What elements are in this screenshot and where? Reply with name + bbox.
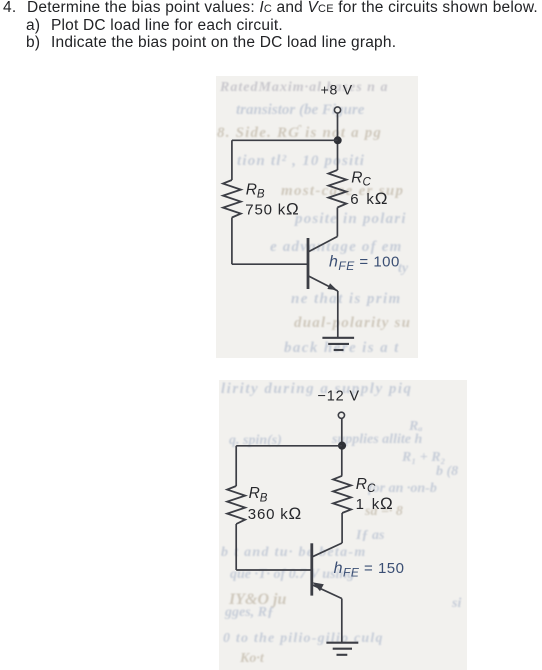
transistor Q2 base bar [310, 543, 313, 595]
svg-text:6 kΩ: 6 kΩ [350, 189, 387, 208]
node -12V supply terminal [338, 412, 344, 418]
wire left vertical upper circuit 1 [231, 140, 233, 180]
node junction dot circuit 1 [334, 136, 342, 144]
wire supply to junction circuit 1 [337, 113, 339, 170]
svg-text:hFE = 150: hFE = 150 [334, 560, 405, 580]
ghost bleed-through text patch 1 [220, 80, 388, 96]
svg-text:1 kΩ: 1 kΩ [356, 494, 393, 513]
wire emitter vertical circuit 2 [341, 599, 343, 643]
resistor RB 750k zigzag [223, 180, 241, 218]
wire left vertical lower circuit 1 [231, 218, 233, 265]
wire supply to junction circuit 2 [341, 419, 343, 476]
transistor Q1 emitter arrowhead [327, 283, 337, 290]
svg-text:750 kΩ: 750 kΩ [245, 199, 298, 218]
wire top horizontal circuit 1 [232, 139, 338, 141]
ground circuit 2 [326, 643, 358, 655]
svg-text:hFE = 100: hFE = 100 [329, 254, 400, 274]
scan paper patch 2 [219, 380, 467, 670]
wire left vertical upper circuit 2 [235, 446, 237, 486]
svg-text:360 kΩ: 360 kΩ [248, 504, 301, 523]
transistor Q2 emitter arrowhead PNP [312, 582, 323, 591]
scan paper patch 1 [216, 76, 418, 358]
svg-text:RC: RC [351, 169, 371, 188]
transistor Q1 emitter diagonal [309, 276, 338, 291]
svg-text:RB: RB [249, 485, 268, 504]
wire base horizontal circuit 2 [236, 569, 311, 571]
wire left vertical lower circuit 2 [235, 524, 237, 570]
transistor Q2 emitter diagonal [312, 585, 342, 599]
ground circuit 1 [322, 338, 354, 350]
transistor Q1 collector diagonal [309, 237, 338, 252]
wire collector vertical circuit 2 [341, 513, 343, 543]
node +8V supply terminal [334, 107, 340, 113]
transistor Q2 collector diagonal [312, 543, 342, 557]
resistor RC 1k zigzag [333, 476, 351, 513]
wire emitter vertical circuit 1 [337, 291, 339, 338]
ghost bleed-through text patch 2 [221, 381, 413, 398]
svg-text:−12 V: −12 V [318, 389, 360, 405]
svg-text:RB: RB [246, 182, 265, 201]
svg-text:+8 V: +8 V [321, 82, 353, 98]
problem statement text [3, 0, 538, 18]
node junction dot circuit 2 [338, 442, 346, 450]
wire collector vertical circuit 1 [336, 208, 338, 237]
wire top horizontal circuit 2 [236, 445, 342, 447]
resistor RC 6k zigzag [328, 170, 346, 208]
wire base horizontal circuit 1 [232, 263, 307, 265]
svg-text:RC: RC [356, 476, 376, 495]
resistor RB 360k zigzag [227, 486, 245, 524]
transistor Q1 base bar [307, 238, 310, 289]
